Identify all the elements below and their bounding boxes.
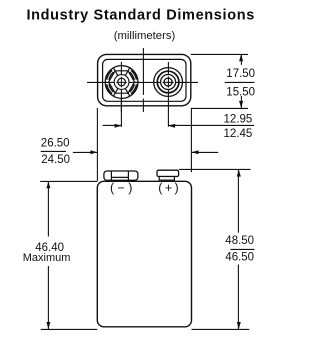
- svg-text:(+): (+): [158, 181, 181, 195]
- svg-text:24.50: 24.50: [41, 154, 70, 166]
- svg-text:26.50: 26.50: [41, 138, 70, 150]
- svg-text:17.50: 17.50: [226, 68, 255, 80]
- svg-text:12.95: 12.95: [224, 114, 253, 126]
- svg-text:46.50: 46.50: [225, 252, 254, 264]
- svg-text:(millimeters): (millimeters): [114, 30, 176, 42]
- svg-text:12.45: 12.45: [224, 128, 253, 140]
- svg-text:48.50: 48.50: [225, 235, 254, 247]
- svg-text:15.50: 15.50: [226, 86, 255, 98]
- svg-text:Industry Standard Dimensions: Industry Standard Dimensions: [26, 7, 255, 23]
- svg-text:Maximum: Maximum: [23, 252, 71, 264]
- svg-text:(−): (−): [110, 181, 136, 195]
